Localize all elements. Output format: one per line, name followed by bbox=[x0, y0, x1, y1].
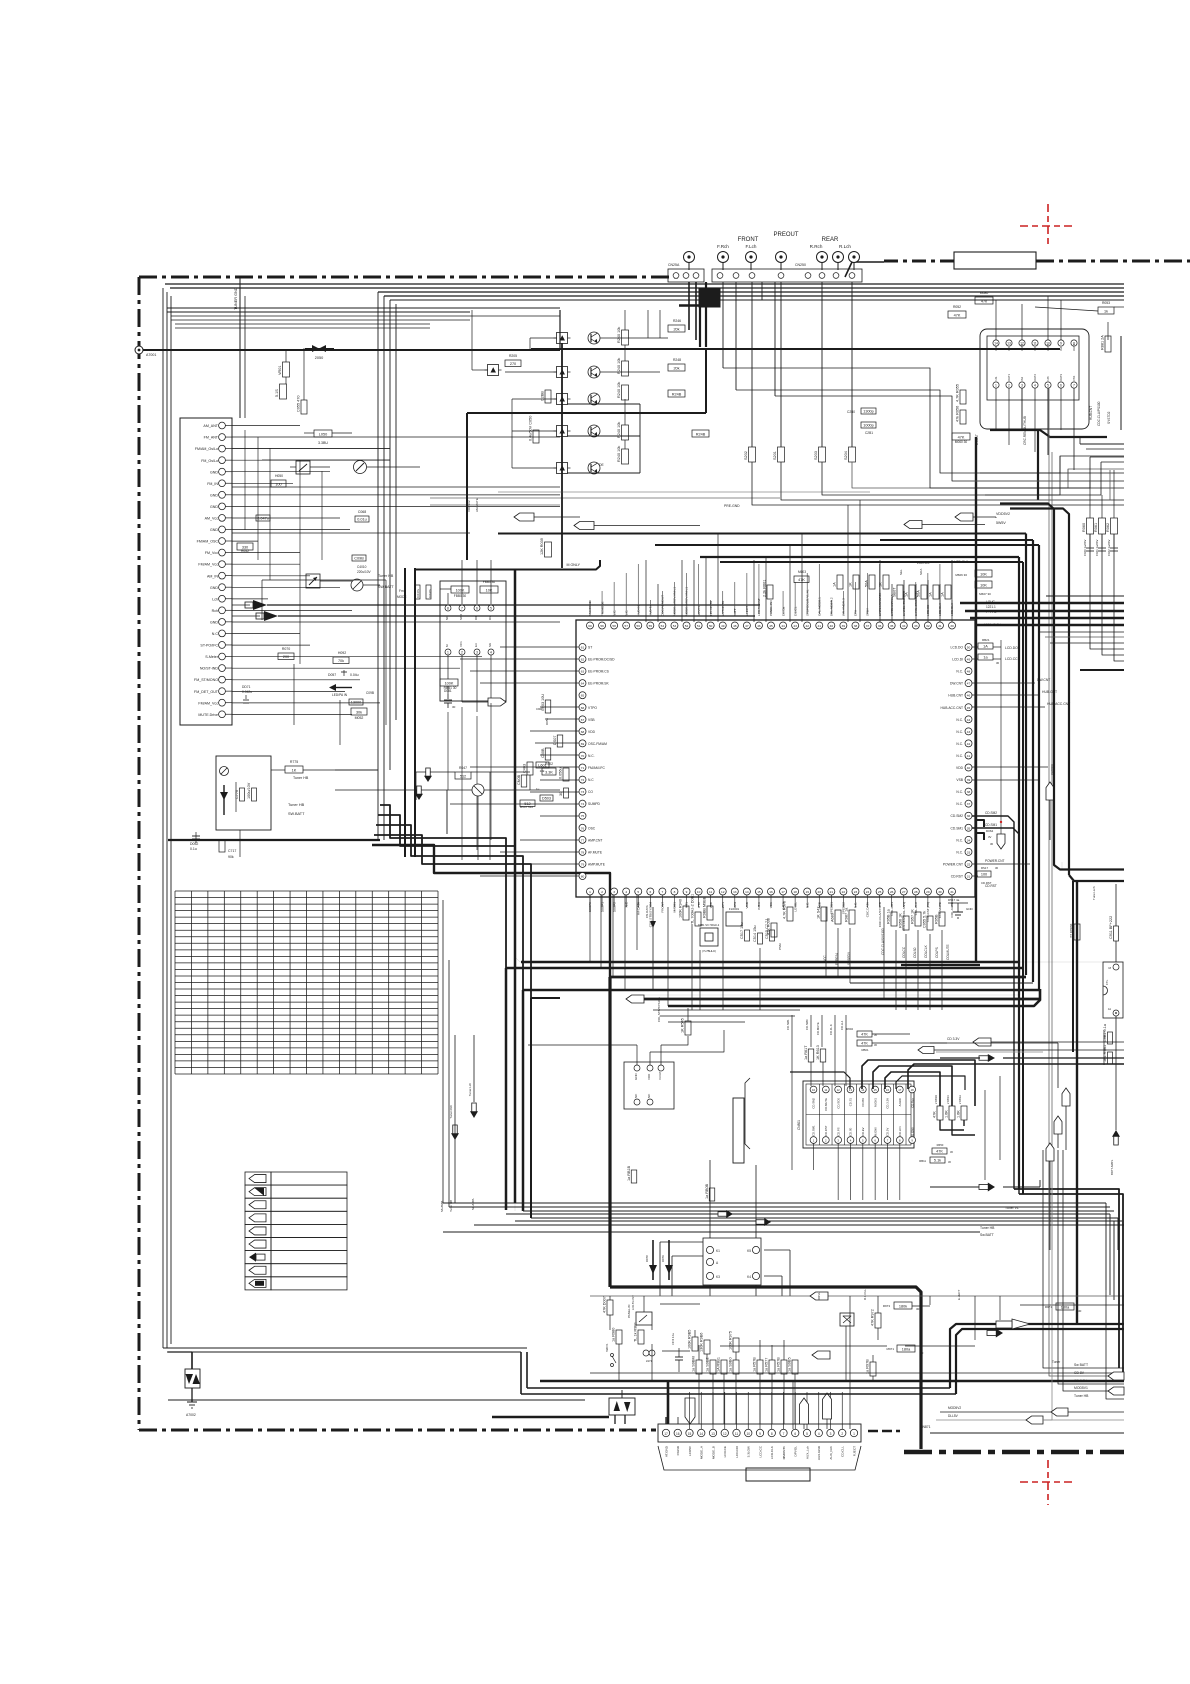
bus bundle y1203 bbox=[454, 1124, 456, 1203]
svg-text:2: 2 bbox=[461, 651, 463, 655]
svg-text:69: 69 bbox=[581, 742, 585, 746]
svg-text:R246: R246 bbox=[673, 319, 681, 323]
resistor R974 180k bbox=[897, 1345, 915, 1352]
FTL block box bbox=[1103, 962, 1123, 1018]
svg-text:R95B 1a: R95B 1a bbox=[887, 908, 891, 924]
svg-text:16: 16 bbox=[769, 890, 773, 894]
svg-text:VSB: VSB bbox=[956, 778, 963, 782]
svg-text:14: 14 bbox=[745, 890, 749, 894]
CN801 right resistors bbox=[937, 1106, 943, 1120]
svg-text:P.JECT: P.JECT bbox=[852, 1446, 856, 1456]
svg-text:D0B1 SX.700Hz-2: D0B1 SX.700Hz-2 bbox=[698, 923, 720, 927]
capacitor C058 bbox=[256, 515, 270, 521]
svg-text:220u/10V: 220u/10V bbox=[357, 570, 372, 574]
verticals below IC long bbox=[825, 907, 827, 976]
svg-text:A1: A1 bbox=[1108, 1007, 1112, 1011]
cap D517 gnd bbox=[948, 902, 968, 904]
svg-text:77: 77 bbox=[581, 838, 585, 842]
svg-text:AM_Vcc: AM_Vcc bbox=[205, 517, 219, 521]
svg-text:58: 58 bbox=[612, 624, 616, 628]
svg-text:43: 43 bbox=[793, 624, 797, 628]
svg-text:M060 30: M060 30 bbox=[955, 440, 968, 444]
pin17 wires left bbox=[665, 1417, 667, 1424]
svg-text:30: 30 bbox=[1078, 1309, 1082, 1313]
svg-text:LCD.CLK: LCD.CLK bbox=[770, 1445, 774, 1459]
svg-text:FM/AM_Os/Lo: FM/AM_Os/Lo bbox=[195, 447, 218, 451]
svg-text:S202: S202 bbox=[744, 451, 748, 460]
svg-text:56: 56 bbox=[637, 624, 641, 628]
svg-text:Tuner.Rch: Tuner.Rch bbox=[449, 1105, 453, 1119]
svg-text:25: 25 bbox=[878, 890, 882, 894]
left connector fanout wires bbox=[232, 425, 300, 427]
resistor R601 bbox=[767, 585, 773, 599]
svg-text:FBB0 30: FBB0 30 bbox=[454, 594, 467, 598]
IC U801 top pins bbox=[993, 340, 999, 346]
svg-text:1.6K: 1.6K bbox=[957, 1110, 961, 1118]
svg-text:SEL: SEL bbox=[899, 569, 903, 575]
svg-text:AM_IN: AM_IN bbox=[207, 574, 218, 578]
svg-text:L971: L971 bbox=[646, 1359, 653, 1363]
svg-text:2 RB13: 2 RB13 bbox=[946, 1095, 950, 1104]
svg-text:30: 30 bbox=[916, 1307, 920, 1311]
svg-text:7: 7 bbox=[783, 1432, 785, 1436]
svg-text:L601: L601 bbox=[538, 764, 546, 768]
arrow down mid bbox=[426, 768, 430, 776]
page border dash-dot top right bbox=[1036, 260, 1190, 263]
svg-text:F.Lch: F.Lch bbox=[746, 244, 757, 249]
svg-text:Tuner-Lch: Tuner-Lch bbox=[1092, 886, 1096, 900]
svg-text:74: 74 bbox=[581, 802, 585, 806]
svg-text:3: 3 bbox=[476, 651, 478, 655]
svg-text:R956 1K: R956 1K bbox=[899, 913, 903, 928]
thin wire y1373 bbox=[590, 1372, 1124, 1374]
svg-text:D051: D051 bbox=[545, 717, 549, 725]
capacitor C055 bbox=[301, 400, 307, 414]
svg-text:GND: GND bbox=[210, 493, 218, 497]
svg-text:R.Lch: R.Lch bbox=[839, 244, 851, 249]
svg-text:LCD.CC: LCD.CC bbox=[1005, 657, 1018, 661]
corner bundle A bbox=[1018, 955, 1020, 962]
svg-text:68: 68 bbox=[581, 730, 585, 734]
resistor R971 180a bbox=[1056, 1303, 1074, 1310]
FTL half circle bbox=[1103, 986, 1108, 995]
svg-text:FM_IN: FM_IN bbox=[207, 482, 218, 486]
svg-text:0.047u: 0.047u bbox=[416, 588, 420, 598]
svg-text:100K R940: 100K R940 bbox=[679, 899, 683, 918]
arrow legend table bbox=[245, 1172, 271, 1185]
svg-text:47K: 47K bbox=[798, 578, 805, 582]
svg-text:5.1S: 5.1S bbox=[275, 389, 279, 397]
VOUT pins bbox=[634, 1065, 640, 1071]
wire bundle right verticals bbox=[1043, 1150, 1124, 1368]
CN801 box bbox=[803, 1081, 914, 1148]
svg-text:EE-PROM.DC/SD: EE-PROM.DC/SD bbox=[588, 658, 615, 662]
svg-text:Sw BATT: Sw BATT bbox=[1074, 1363, 1088, 1367]
svg-text:CO: CO bbox=[588, 790, 593, 794]
svg-text:40: 40 bbox=[830, 624, 834, 628]
inner frame left double line bbox=[162, 288, 164, 1348]
svg-text:10: 10 bbox=[746, 1432, 750, 1436]
svg-text:1a RB0B: 1a RB0B bbox=[705, 1183, 709, 1199]
svg-text:8: 8 bbox=[771, 1432, 773, 1436]
up arrow AUX L bbox=[800, 1398, 809, 1424]
tuner block diode bbox=[220, 792, 228, 800]
svg-text:47: 47 bbox=[967, 682, 971, 686]
svg-text:1K S42: 1K S42 bbox=[817, 907, 821, 919]
svg-text:HUB.CNT: HUB.CNT bbox=[1089, 406, 1093, 420]
svg-text:REAR: REAR bbox=[822, 237, 839, 243]
svg-text:N.C.: N.C. bbox=[956, 838, 963, 842]
flag mid bottom bbox=[812, 1351, 830, 1359]
svg-text:CD.MUTE: CD.MUTE bbox=[824, 1098, 828, 1111]
svg-text:FM/AM_OSC: FM/AM_OSC bbox=[197, 540, 219, 544]
svg-text:D1: D1 bbox=[488, 616, 492, 620]
resistors R61T R613 bbox=[808, 1049, 814, 1062]
svg-text:C055 470: C055 470 bbox=[297, 396, 301, 412]
key block box bbox=[703, 1238, 761, 1285]
svg-text:6: 6 bbox=[476, 607, 478, 611]
resistors R602 RB01 47K bbox=[857, 1031, 872, 1037]
CN871 trapezoid bbox=[658, 1446, 861, 1470]
svg-text:CD.SM0: CD.SM0 bbox=[805, 1019, 809, 1030]
flags up right mid bbox=[1062, 1088, 1070, 1106]
crystal X601 bbox=[700, 928, 718, 946]
svg-text:50A: 50A bbox=[865, 580, 869, 587]
connector CN25A bbox=[668, 269, 704, 282]
capacitor C068 0.01u bbox=[355, 516, 369, 522]
svg-text:V.OUT: V.OUT bbox=[658, 1071, 662, 1080]
svg-text:FM_ANT: FM_ANT bbox=[204, 436, 219, 440]
bus bundle more bbox=[506, 1213, 1110, 1215]
svg-text:D0: D0 bbox=[474, 616, 478, 620]
eeprom bottom resistor RBB1 bbox=[440, 679, 458, 686]
svg-text:30: 30 bbox=[996, 661, 1000, 665]
eeprom verticals down bbox=[461, 707, 463, 860]
svg-text:1u: 1u bbox=[536, 787, 540, 791]
svg-text:47K: 47K bbox=[861, 1033, 868, 1037]
svg-text:K4: K4 bbox=[747, 1275, 751, 1279]
svg-text:FM/AM_Vcc: FM/AM_Vcc bbox=[198, 563, 218, 567]
svg-text:N.C.: N.C. bbox=[956, 670, 963, 674]
svg-text:FM_ST/MONO: FM_ST/MONO bbox=[194, 678, 218, 682]
svg-text:C514 15u: C514 15u bbox=[753, 926, 757, 942]
svg-text:C2B0: C2B0 bbox=[847, 410, 855, 414]
svg-text:16: 16 bbox=[676, 1432, 680, 1436]
resistor R973 180k bbox=[894, 1302, 912, 1309]
signal arrow Rch2 bbox=[264, 611, 278, 621]
resistor 10K pullup bbox=[480, 586, 498, 593]
svg-text:50: 50 bbox=[709, 624, 713, 628]
svg-text:17: 17 bbox=[898, 1088, 902, 1092]
svg-text:VC1: VC1 bbox=[459, 641, 463, 647]
svg-text:1A: 1A bbox=[905, 592, 909, 597]
svg-text:32: 32 bbox=[967, 862, 971, 866]
arrow open right bbox=[1012, 1319, 1030, 1329]
wire left bus vert bbox=[244, 296, 246, 418]
caps C240 C241 bbox=[861, 408, 876, 414]
svg-text:80: 80 bbox=[581, 875, 585, 879]
svg-text:ST-PO/IFC: ST-PO/IFC bbox=[200, 644, 218, 648]
svg-text:CD.SM2: CD.SM2 bbox=[812, 1098, 816, 1109]
eeprom pins top bbox=[445, 605, 451, 611]
svg-text:8: 8 bbox=[447, 607, 449, 611]
IC right pin wires bbox=[972, 646, 978, 648]
svg-text:27: 27 bbox=[902, 890, 906, 894]
svg-text:36: 36 bbox=[967, 814, 971, 818]
svg-text:FL6001: FL6001 bbox=[729, 907, 740, 911]
preout dropper resistors bbox=[749, 447, 756, 462]
svg-text:LED/PA IN: LED/PA IN bbox=[332, 693, 348, 697]
svg-text:S204: S204 bbox=[844, 451, 848, 460]
resistor R908 22 bbox=[1074, 924, 1080, 940]
svg-text:CDC.CLA/SYS100: CDC.CLA/SYS100 bbox=[881, 928, 885, 955]
svg-text:D979: D979 bbox=[661, 1255, 665, 1262]
svg-text:A680: A680 bbox=[831, 913, 835, 922]
svg-text:HUB.CNT: HUB.CNT bbox=[1042, 690, 1057, 694]
svg-text:IN4: IN4 bbox=[1059, 346, 1063, 351]
svg-text:1K R545: 1K R545 bbox=[681, 1018, 685, 1033]
svg-text:45: 45 bbox=[769, 624, 773, 628]
svg-text:SW.BATT: SW.BATT bbox=[288, 812, 305, 816]
svg-text:512: 512 bbox=[524, 802, 530, 806]
key pins bbox=[706, 1246, 713, 1253]
svg-text:0.056u: 0.056u bbox=[559, 767, 563, 779]
CN801 pins bbox=[819, 1084, 821, 1145]
svg-text:N.C.: N.C. bbox=[588, 754, 595, 758]
svg-text:1: 1 bbox=[853, 1432, 855, 1436]
svg-text:F.Rch: F.Rch bbox=[717, 244, 729, 249]
svg-text:76: 76 bbox=[581, 826, 585, 830]
svg-text:R24B: R24B bbox=[696, 433, 706, 437]
svg-text:Tuner HB: Tuner HB bbox=[378, 574, 394, 578]
array wires bbox=[505, 371, 557, 373]
thick bus corner top bbox=[699, 289, 720, 307]
resistor boxes right of array bbox=[668, 390, 685, 397]
svg-text:POWER.CNT: POWER.CNT bbox=[943, 862, 963, 866]
connector CN250 bbox=[712, 269, 862, 282]
resistor KR50 bbox=[280, 384, 287, 399]
IC601 right pins bbox=[965, 644, 972, 651]
svg-text:CD.RST: CD.RST bbox=[981, 881, 992, 885]
svg-text:6: 6 bbox=[649, 890, 651, 894]
resistor H050 100 bbox=[271, 480, 286, 487]
svg-text:MODE_B: MODE_B bbox=[711, 1446, 715, 1459]
svg-text:C517 15u: C517 15u bbox=[740, 923, 744, 939]
page border dash-dot top bbox=[139, 276, 678, 279]
svg-text:10K: 10K bbox=[486, 589, 493, 593]
svg-text:E3: E3 bbox=[474, 643, 478, 647]
bus y968 bbox=[506, 967, 1023, 970]
svg-text:VDD: VDD bbox=[956, 766, 964, 770]
svg-text:20k: 20k bbox=[673, 328, 679, 332]
svg-text:C09B: C09B bbox=[354, 557, 364, 561]
svg-text:15: 15 bbox=[688, 1432, 692, 1436]
svg-text:1a R61T: 1a R61T bbox=[804, 1045, 808, 1060]
svg-text:P.GND: P.GND bbox=[676, 1445, 680, 1455]
svg-text:OUT5: OUT5 bbox=[1046, 344, 1050, 351]
svg-text:COLMUTE: COLMUTE bbox=[946, 944, 950, 960]
svg-text:130K R9B6: 130K R9B6 bbox=[700, 1333, 704, 1352]
svg-text:CD.3V: CD.3V bbox=[886, 1128, 890, 1136]
svg-text:CDL.STB/SYS10A: CDL.STB/SYS10A bbox=[657, 997, 661, 1022]
svg-text:512: 512 bbox=[460, 775, 466, 779]
svg-text:3.3LOW: 3.3LOW bbox=[747, 1446, 751, 1457]
IC601 left pins bbox=[579, 644, 586, 651]
svg-text:A7001: A7001 bbox=[146, 353, 156, 357]
svg-text:11: 11 bbox=[735, 1432, 739, 1436]
resistor RB1B bbox=[631, 1170, 637, 1183]
svg-text:12: 12 bbox=[837, 1088, 841, 1092]
svg-text:5.1k: 5.1k bbox=[934, 1159, 941, 1163]
svg-text:PSM: PSM bbox=[778, 943, 782, 950]
svg-text:1: 1 bbox=[589, 890, 591, 894]
tuner wires bbox=[335, 769, 378, 771]
svg-text:48: 48 bbox=[733, 624, 737, 628]
box corner left of FTL bbox=[930, 1042, 1058, 1044]
thick pair right mid bbox=[1054, 860, 1124, 870]
verticals from triple bbox=[1089, 534, 1091, 547]
svg-text:C955 5.7k: C955 5.7k bbox=[923, 911, 927, 928]
wires mid bbox=[416, 771, 455, 773]
svg-text:30: 30 bbox=[452, 705, 456, 709]
resistor D064 3V bbox=[976, 820, 984, 827]
svg-text:4: 4 bbox=[625, 890, 627, 894]
svg-text:1300p: 1300p bbox=[863, 410, 874, 414]
svg-text:1a S9BM: 1a S9BM bbox=[692, 1356, 696, 1372]
svg-text:CD.RST: CD.RST bbox=[824, 1125, 828, 1136]
svg-text:42: 42 bbox=[967, 742, 971, 746]
title box top right bbox=[954, 252, 1036, 269]
resistor R053 bbox=[1098, 307, 1114, 314]
staircase corner bus B bbox=[378, 815, 515, 846]
staircase corner bus E bbox=[372, 845, 610, 977]
resistor R248 bbox=[668, 364, 685, 371]
svg-text:CN250: CN250 bbox=[795, 263, 806, 267]
svg-text:22 R908: 22 R908 bbox=[1070, 924, 1074, 938]
svg-text:52: 52 bbox=[685, 624, 689, 628]
svg-text:CD.SM1: CD.SM1 bbox=[812, 1125, 816, 1136]
arrow right y1187 bbox=[979, 1184, 989, 1189]
staircase corner bus D bbox=[374, 835, 531, 998]
svg-text:CN0B: CN0B bbox=[517, 774, 521, 785]
svg-text:6: 6 bbox=[1060, 384, 1062, 388]
resistor D007 47K bbox=[607, 1300, 613, 1315]
U801 wires bottom bbox=[995, 388, 997, 430]
svg-text:DW.CNT: DW.CNT bbox=[950, 682, 963, 686]
svg-text:SA.AMPL: SA.AMPL bbox=[471, 1198, 475, 1211]
svg-text:CD.SCK: CD.SCK bbox=[836, 1098, 840, 1109]
resistor 100K pullup bbox=[451, 586, 469, 593]
svg-text:SYSTD2: SYSTD2 bbox=[1107, 411, 1111, 424]
svg-text:OSC-FM/AM: OSC-FM/AM bbox=[588, 742, 607, 746]
top horizontal bus bbox=[165, 283, 1124, 285]
svg-text:C2B1: C2B1 bbox=[865, 431, 873, 435]
resistor M052 30k bbox=[351, 708, 367, 715]
grey pair vertical bbox=[1048, 388, 1050, 1250]
svg-text:13: 13 bbox=[711, 1432, 715, 1436]
svg-text:Rch: Rch bbox=[212, 609, 218, 613]
svg-text:CDC.CLA/PS100: CDC.CLA/PS100 bbox=[1097, 401, 1101, 426]
svg-text:SW BATT: SW BATT bbox=[378, 585, 395, 589]
svg-text:C903: C903 bbox=[536, 707, 543, 711]
svg-text:FM_Os/Lo: FM_Os/Lo bbox=[201, 459, 218, 463]
flag eeprom bbox=[488, 698, 506, 706]
svg-text:GND: GND bbox=[210, 505, 218, 509]
svg-text:1221.1: 1221.1 bbox=[986, 605, 996, 609]
svg-text:1K: 1K bbox=[292, 769, 297, 773]
resistor R981 bbox=[638, 1330, 644, 1344]
svg-text:0.047u: 0.047u bbox=[428, 588, 432, 598]
svg-text:1k: 1k bbox=[1104, 310, 1108, 314]
svg-text:9: 9 bbox=[759, 1432, 761, 1436]
svg-text:R602: R602 bbox=[846, 1027, 853, 1031]
svg-text:13: 13 bbox=[733, 890, 737, 894]
svg-text:12K R039: 12K R039 bbox=[540, 538, 544, 555]
svg-text:CD.S1: CD.S1 bbox=[849, 1098, 853, 1107]
svg-text:Fm: Fm bbox=[399, 589, 404, 593]
svg-text:R240 10k: R240 10k bbox=[617, 422, 621, 438]
IC U801 inner box bbox=[987, 336, 1079, 400]
up arrow AUX R bbox=[823, 1393, 832, 1419]
svg-text:5: 5 bbox=[637, 890, 639, 894]
svg-text:C4010: C4010 bbox=[357, 565, 367, 569]
svg-text:Tuner HB: Tuner HB bbox=[288, 803, 305, 807]
svg-text:D978: D978 bbox=[645, 1255, 649, 1262]
arrow down tuner R bbox=[453, 1125, 457, 1134]
arrow up batt bbox=[1114, 1136, 1118, 1145]
svg-text:33: 33 bbox=[967, 850, 971, 854]
svg-text:47k R056: 47k R056 bbox=[956, 406, 960, 422]
svg-text:11: 11 bbox=[824, 1088, 827, 1092]
VOUT block box bbox=[624, 1062, 674, 1109]
svg-text:1a S9B0: 1a S9B0 bbox=[729, 1357, 733, 1372]
svg-text:11: 11 bbox=[1033, 342, 1037, 346]
svg-text:PANEL.IN: PANEL.IN bbox=[627, 1305, 631, 1318]
svg-text:10: 10 bbox=[697, 890, 701, 894]
fan verticals right bbox=[1058, 1148, 1063, 1296]
vertical bus bundle left-center bbox=[377, 292, 379, 840]
svg-text:47K: 47K bbox=[954, 314, 961, 318]
wires right col staircase bbox=[1080, 443, 1124, 445]
CN871 box bbox=[658, 1424, 861, 1442]
bracket polyline bbox=[745, 1078, 750, 1149]
arrow down mid2 bbox=[417, 786, 421, 794]
svg-text:50A: 50A bbox=[917, 590, 921, 597]
svg-text:FM_DET_OUT: FM_DET_OUT bbox=[194, 690, 219, 694]
svg-text:41: 41 bbox=[818, 624, 822, 628]
VOUT wires bbox=[636, 1045, 638, 1065]
svg-text:D057: D057 bbox=[328, 673, 336, 677]
svg-text:IN6: IN6 bbox=[1007, 346, 1011, 351]
svg-text:C068: C068 bbox=[358, 510, 366, 514]
svg-text:200: 200 bbox=[283, 655, 289, 659]
svg-text:51: 51 bbox=[697, 624, 701, 628]
U801 wires top bbox=[995, 300, 997, 340]
FTL pin M bbox=[1113, 964, 1119, 970]
triangle box bbox=[840, 1313, 854, 1326]
flag fanout 2 bbox=[1108, 1387, 1124, 1395]
transistor array center bbox=[557, 333, 568, 344]
resistor RS17 100 bbox=[977, 871, 991, 877]
switch SW071 bbox=[611, 1354, 614, 1357]
svg-text:47K R972: 47K R972 bbox=[871, 1309, 875, 1326]
eeprom wires bbox=[447, 655, 449, 679]
tuner block transistor bbox=[220, 767, 229, 776]
svg-text:30k: 30k bbox=[356, 711, 362, 715]
svg-text:R061: R061 bbox=[1094, 523, 1098, 532]
svg-text:31: 31 bbox=[950, 890, 954, 894]
thick wire left bottom bbox=[168, 839, 380, 841]
